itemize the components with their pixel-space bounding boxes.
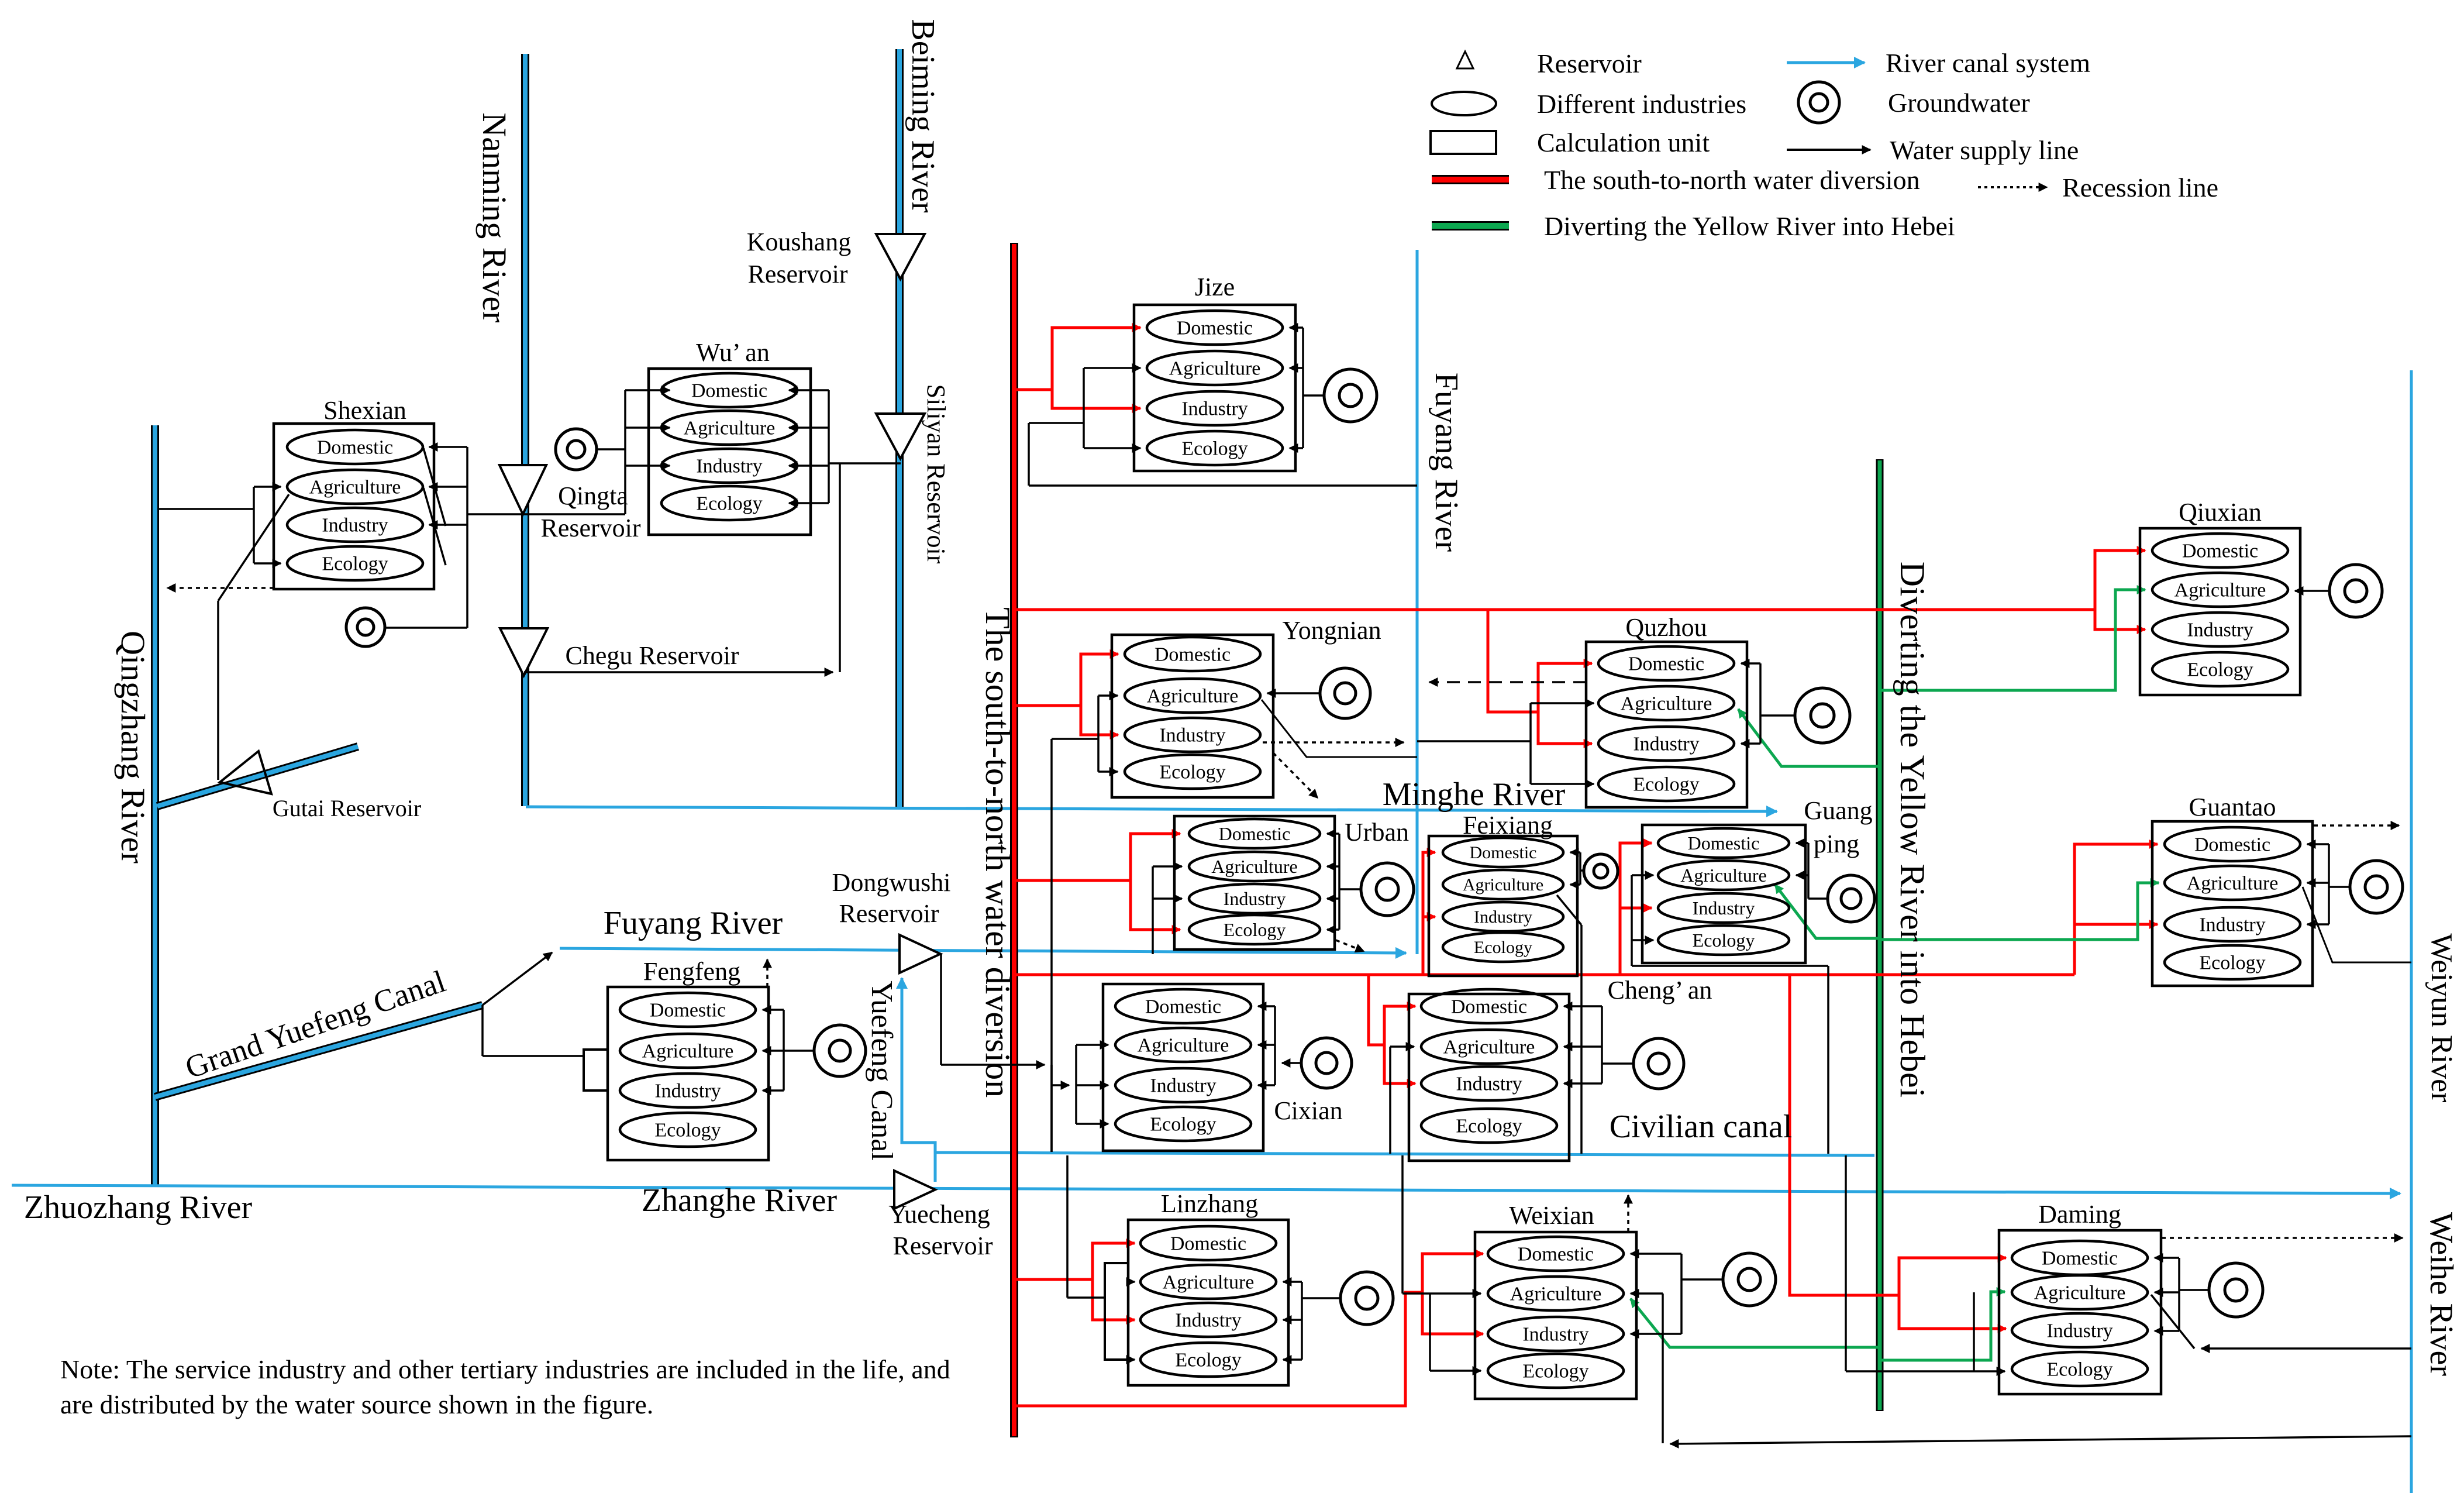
- svg-text:Domestic: Domestic: [1470, 843, 1537, 862]
- svg-text:Reservoir: Reservoir: [1537, 49, 1642, 78]
- svg-text:Minghe River: Minghe River: [1383, 776, 1566, 813]
- svg-text:Jize: Jize: [1195, 273, 1235, 301]
- svg-text:Agriculture: Agriculture: [1138, 1035, 1229, 1057]
- svg-text:Nanming River: Nanming River: [475, 112, 514, 322]
- svg-text:are distributed by the water s: are distributed by the water source show…: [60, 1389, 653, 1419]
- svg-text:Ecology: Ecology: [1474, 938, 1532, 957]
- svg-text:Domestic: Domestic: [1219, 823, 1291, 844]
- svg-text:Different industries: Different industries: [1537, 89, 1746, 119]
- svg-text:Ecology: Ecology: [1181, 438, 1247, 460]
- svg-text:Industry: Industry: [2199, 914, 2265, 936]
- svg-text:Domestic: Domestic: [317, 437, 393, 459]
- svg-text:Shexian: Shexian: [323, 396, 406, 425]
- svg-text:Domestic: Domestic: [691, 380, 767, 402]
- svg-text:Zhanghe River: Zhanghe River: [642, 1182, 838, 1219]
- svg-text:Industry: Industry: [1633, 734, 1699, 755]
- svg-text:Weiyun River: Weiyun River: [2425, 934, 2458, 1103]
- svg-text:Industry: Industry: [696, 456, 762, 477]
- svg-text:Yongnian: Yongnian: [1282, 616, 1381, 645]
- svg-text:Reservoir: Reservoir: [540, 514, 640, 542]
- svg-text:Water supply line: Water supply line: [1890, 135, 2079, 165]
- svg-text:Agriculture: Agriculture: [1621, 693, 1712, 715]
- svg-text:Wu’ an: Wu’ an: [696, 338, 770, 367]
- svg-text:Note: The service industry and: Note: The service industry and other ter…: [60, 1354, 950, 1384]
- svg-text:Industry: Industry: [322, 515, 388, 536]
- svg-text:Domestic: Domestic: [2042, 1248, 2118, 1270]
- svg-text:Industry: Industry: [1224, 888, 1286, 909]
- svg-text:Domestic: Domestic: [1155, 644, 1231, 666]
- svg-text:Agriculture: Agriculture: [1211, 856, 1298, 877]
- svg-text:The south-to-north water diver: The south-to-north water diversion: [1544, 165, 1920, 195]
- svg-text:Agriculture: Agriculture: [309, 477, 401, 498]
- svg-text:Ecology: Ecology: [1224, 919, 1286, 940]
- svg-text:Ecology: Ecology: [1693, 930, 1755, 951]
- svg-text:Ecology: Ecology: [1633, 774, 1699, 796]
- svg-text:Qingta: Qingta: [558, 481, 628, 510]
- svg-text:Fuyang River: Fuyang River: [1428, 373, 1464, 552]
- svg-text:ping: ping: [1814, 830, 1859, 858]
- svg-text:Industry: Industry: [1181, 398, 1247, 420]
- svg-text:Urban: Urban: [1345, 818, 1409, 847]
- svg-text:Agriculture: Agriculture: [1443, 1037, 1535, 1058]
- svg-text:Agriculture: Agriculture: [2034, 1282, 2126, 1304]
- svg-text:Agriculture: Agriculture: [1463, 875, 1543, 895]
- svg-text:Weixian: Weixian: [1509, 1201, 1594, 1230]
- svg-text:Ecology: Ecology: [322, 553, 388, 575]
- svg-text:Diverting the Yellow River int: Diverting the Yellow River into Hebei: [1893, 562, 1932, 1098]
- svg-text:Ecology: Ecology: [1175, 1350, 1241, 1371]
- svg-text:Domestic: Domestic: [1628, 653, 1704, 675]
- svg-text:Qingzhang River: Qingzhang River: [114, 631, 152, 864]
- svg-text:Daming: Daming: [2038, 1200, 2121, 1229]
- svg-text:Domestic: Domestic: [650, 1000, 726, 1021]
- svg-text:Industry: Industry: [1456, 1074, 1522, 1095]
- svg-text:Ecology: Ecology: [2199, 952, 2265, 974]
- svg-text:Guang: Guang: [1804, 796, 1872, 825]
- svg-text:Domestic: Domestic: [2182, 541, 2258, 562]
- svg-text:Fuyang River: Fuyang River: [604, 905, 783, 941]
- svg-text:Quzhou: Quzhou: [1625, 613, 1707, 642]
- svg-text:Calculation unit: Calculation unit: [1537, 128, 1710, 157]
- svg-text:Industry: Industry: [654, 1081, 721, 1102]
- svg-text:Ecology: Ecology: [696, 493, 762, 515]
- svg-text:Agriculture: Agriculture: [642, 1041, 734, 1062]
- svg-text:The south-to-north water diver: The south-to-north water diversion: [978, 607, 1017, 1098]
- svg-text:Groundwater: Groundwater: [1888, 88, 2030, 118]
- svg-text:Linzhang: Linzhang: [1161, 1189, 1258, 1218]
- svg-text:Agriculture: Agriculture: [684, 418, 776, 439]
- svg-text:Domestic: Domestic: [1145, 996, 1221, 1018]
- svg-text:Cixian: Cixian: [1274, 1096, 1342, 1125]
- svg-text:Agriculture: Agriculture: [1147, 686, 1239, 707]
- svg-text:Feixiang: Feixiang: [1463, 811, 1553, 840]
- svg-text:Chegu Reservoir: Chegu Reservoir: [566, 641, 739, 670]
- svg-text:Weihe River: Weihe River: [2423, 1212, 2459, 1376]
- svg-text:Siliyan Reservoir: Siliyan Reservoir: [922, 384, 950, 564]
- svg-text:Industry: Industry: [1693, 897, 1755, 918]
- svg-text:Beiming River: Beiming River: [905, 19, 941, 213]
- svg-text:Reservoir: Reservoir: [839, 899, 939, 928]
- svg-text:Ecology: Ecology: [1150, 1114, 1216, 1136]
- svg-text:Reservoir: Reservoir: [892, 1231, 993, 1260]
- svg-text:Domestic: Domestic: [1451, 996, 1527, 1018]
- svg-text:Agriculture: Agriculture: [1163, 1272, 1255, 1294]
- svg-text:Yuecheng: Yuecheng: [888, 1200, 990, 1229]
- svg-text:Cheng’ an: Cheng’ an: [1608, 976, 1712, 1004]
- svg-text:Dongwushi: Dongwushi: [832, 868, 951, 897]
- svg-text:Industry: Industry: [2046, 1320, 2113, 1342]
- svg-text:Guantao: Guantao: [2189, 793, 2276, 821]
- svg-text:Agriculture: Agriculture: [1510, 1284, 1602, 1305]
- svg-text:Diverting the Yellow River int: Diverting the Yellow River into Hebei: [1544, 211, 1955, 241]
- svg-text:Zhuozhang River: Zhuozhang River: [24, 1189, 253, 1226]
- svg-text:Domestic: Domestic: [1688, 832, 1760, 854]
- svg-text:Industry: Industry: [1150, 1075, 1216, 1097]
- svg-text:Domestic: Domestic: [2194, 834, 2270, 856]
- svg-text:Industry: Industry: [1522, 1324, 1588, 1346]
- svg-text:Recession line: Recession line: [2062, 173, 2218, 202]
- svg-text:Domestic: Domestic: [1177, 318, 1253, 339]
- svg-text:Ecology: Ecology: [1159, 762, 1225, 783]
- svg-text:Agriculture: Agriculture: [1680, 865, 1767, 886]
- svg-text:Ecology: Ecology: [1456, 1116, 1522, 1137]
- svg-text:Ecology: Ecology: [1522, 1361, 1588, 1382]
- svg-text:Industry: Industry: [2187, 620, 2253, 641]
- svg-text:Ecology: Ecology: [2046, 1359, 2113, 1381]
- svg-text:Reservoir: Reservoir: [747, 260, 847, 288]
- svg-text:Industry: Industry: [1175, 1310, 1241, 1332]
- svg-text:Domestic: Domestic: [1518, 1244, 1594, 1265]
- svg-text:Gutai Reservoir: Gutai Reservoir: [273, 795, 421, 821]
- svg-text:Ecology: Ecology: [2187, 659, 2253, 681]
- svg-text:Agriculture: Agriculture: [2187, 873, 2279, 895]
- svg-text:Industry: Industry: [1474, 907, 1532, 927]
- svg-text:Agriculture: Agriculture: [1169, 358, 1261, 380]
- svg-text:Koushang: Koushang: [747, 228, 851, 256]
- svg-text:Domestic: Domestic: [1170, 1233, 1246, 1255]
- svg-text:Qiuxian: Qiuxian: [2179, 498, 2262, 527]
- svg-text:Yuefeng Canal: Yuefeng Canal: [865, 981, 898, 1161]
- svg-text:Civilian canal: Civilian canal: [1610, 1109, 1793, 1145]
- svg-text:River canal system: River canal system: [1886, 48, 2090, 78]
- svg-text:Agriculture: Agriculture: [2174, 580, 2266, 601]
- svg-text:Ecology: Ecology: [654, 1120, 721, 1141]
- svg-text:Industry: Industry: [1159, 725, 1225, 746]
- svg-text:Fengfeng: Fengfeng: [643, 957, 740, 986]
